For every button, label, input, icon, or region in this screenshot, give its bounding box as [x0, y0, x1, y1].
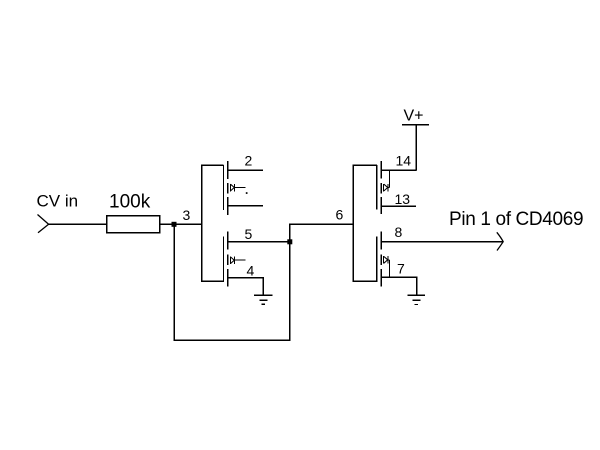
ground 1	[254, 295, 272, 304]
stray dot	[246, 192, 248, 194]
output arrowhead	[497, 232, 503, 250]
transistor Q1 source lead	[228, 205, 263, 207]
transistor Q4 gate plate	[376, 237, 378, 283]
svg-text:Pin 1 of CD4069: Pin 1 of CD4069	[449, 209, 583, 230]
transistor Q2 drain lead pin5	[228, 241, 290, 243]
transistor Q1 body arrow	[230, 184, 245, 192]
feedback wire node3 to node5 to inverter2	[174, 224, 353, 340]
wire input to resistor	[49, 223, 107, 225]
transistor Q2 body arrow	[230, 257, 245, 265]
svg-text:V+: V+	[404, 108, 424, 125]
transistor Q3 body arrow	[384, 170, 390, 191]
resistor R1 body	[107, 216, 160, 233]
inverter 1 gate bus	[202, 165, 224, 281]
wire resistor to gate bus	[160, 223, 202, 225]
svg-text:100k: 100k	[109, 192, 151, 213]
transistor Q3 channel segments	[380, 161, 382, 214]
wire pin14 to V+	[415, 125, 417, 170]
svg-text:3: 3	[183, 207, 191, 223]
svg-text:4: 4	[247, 263, 255, 279]
node 3 junction dot	[172, 222, 177, 227]
ground 2	[408, 295, 426, 304]
transistor Q4 body arrow	[384, 256, 390, 277]
svg-text:2: 2	[245, 153, 253, 169]
transistor Q1 gate plate	[223, 165, 225, 210]
svg-text:8: 8	[395, 224, 403, 240]
svg-text:5: 5	[245, 226, 253, 242]
svg-text:7: 7	[397, 261, 405, 277]
svg-text:6: 6	[336, 207, 344, 223]
transistor Q4 channel segments	[380, 232, 382, 287]
transistor Q2 source lead pin4	[228, 278, 263, 296]
svg-text:14: 14	[396, 153, 412, 169]
svg-text:CV in: CV in	[37, 192, 79, 211]
transistor Q3 gate plate	[376, 165, 378, 210]
transistor Q2 channel segments	[227, 232, 229, 287]
svg-text:13: 13	[395, 191, 411, 207]
transistor Q4 drain lead pin8 output	[381, 241, 503, 243]
transistor Q3 source lead pin13	[381, 205, 416, 207]
V+ supply bar	[402, 124, 429, 126]
transistor Q1 drain lead pin2	[228, 169, 263, 171]
transistor Q1 channel segments	[227, 161, 229, 215]
transistor Q2 gate plate	[223, 237, 225, 283]
transistor Q4 source lead pin7	[381, 277, 416, 295]
input connector arrow	[38, 215, 49, 233]
node 5 junction dot	[287, 239, 292, 244]
inverter 2 gate bus	[353, 165, 376, 281]
transistor Q3 drain lead pin14	[381, 169, 416, 171]
